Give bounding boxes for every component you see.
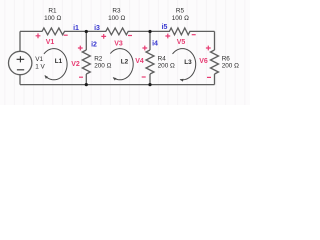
svg-text:i5: i5 bbox=[162, 24, 168, 31]
svg-text:R3: R3 bbox=[112, 7, 121, 14]
svg-text:V6: V6 bbox=[199, 58, 208, 65]
svg-text:V3: V3 bbox=[114, 41, 123, 48]
svg-text:L1: L1 bbox=[55, 58, 63, 65]
svg-text:V5: V5 bbox=[177, 39, 186, 46]
svg-text:i3: i3 bbox=[94, 25, 100, 32]
svg-text:200 Ω: 200 Ω bbox=[158, 63, 175, 70]
svg-text:R4: R4 bbox=[158, 55, 167, 62]
svg-text:L2: L2 bbox=[121, 58, 129, 65]
svg-text:R6: R6 bbox=[222, 55, 231, 62]
svg-text:L3: L3 bbox=[184, 59, 192, 66]
svg-text:200 Ω: 200 Ω bbox=[94, 63, 111, 70]
svg-text:R1: R1 bbox=[48, 7, 57, 14]
svg-text:200 Ω: 200 Ω bbox=[222, 63, 239, 70]
svg-text:100 Ω: 100 Ω bbox=[108, 15, 125, 22]
svg-text:i1: i1 bbox=[73, 25, 79, 32]
svg-text:V1: V1 bbox=[46, 39, 55, 46]
svg-text:V2: V2 bbox=[71, 61, 80, 68]
svg-text:V1: V1 bbox=[35, 56, 43, 63]
svg-text:R2: R2 bbox=[94, 55, 103, 62]
svg-text:i4: i4 bbox=[152, 40, 158, 47]
svg-text:1 V: 1 V bbox=[35, 63, 45, 70]
svg-text:i2: i2 bbox=[91, 42, 97, 49]
svg-text:R5: R5 bbox=[176, 7, 185, 14]
svg-text:V4: V4 bbox=[135, 58, 144, 65]
svg-text:100 Ω: 100 Ω bbox=[44, 15, 61, 22]
svg-text:100 Ω: 100 Ω bbox=[172, 15, 189, 22]
